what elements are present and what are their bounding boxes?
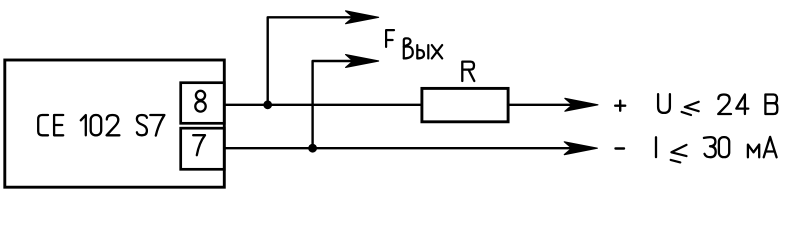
label U	[658, 94, 670, 113]
label + polarity	[615, 101, 625, 111]
wire: Fout branch from pin-8 wire	[268, 17, 352, 105]
wire: pin 8 to resistor	[224, 104, 421, 106]
device box U1 CE 102 S7	[5, 60, 225, 187]
wire: resistor to + output	[508, 104, 572, 106]
arrowhead + output	[565, 98, 598, 111]
resistor R	[422, 88, 508, 121]
symbol less-or-equal (bottom)	[671, 145, 687, 163]
label - polarity	[616, 147, 625, 149]
arrowhead - output	[564, 142, 597, 155]
label 30	[704, 137, 729, 157]
arrowhead Fout upper	[346, 11, 379, 24]
junction node on pin-8 wire	[263, 100, 272, 109]
terminal box 8	[181, 83, 225, 124]
label subscript вых	[404, 38, 442, 58]
label F	[386, 30, 394, 47]
label В (volts)	[765, 95, 777, 115]
terminal box 7	[181, 128, 225, 169]
symbol less-or-equal (top)	[682, 102, 699, 115]
arrowhead Fout lower	[346, 55, 379, 68]
label I	[655, 137, 657, 157]
terminal pin label 8	[195, 91, 205, 112]
label CE 102 S7	[38, 115, 164, 136]
terminal pin label 7	[193, 135, 205, 155]
label 24	[718, 95, 748, 115]
label R	[462, 62, 474, 81]
label мА (milliamps)	[748, 137, 777, 157]
wire: Fout branch from pin-7 wire	[313, 61, 353, 148]
junction node on pin-7 wire	[308, 144, 317, 153]
wire: pin 7 to - output	[224, 147, 571, 149]
